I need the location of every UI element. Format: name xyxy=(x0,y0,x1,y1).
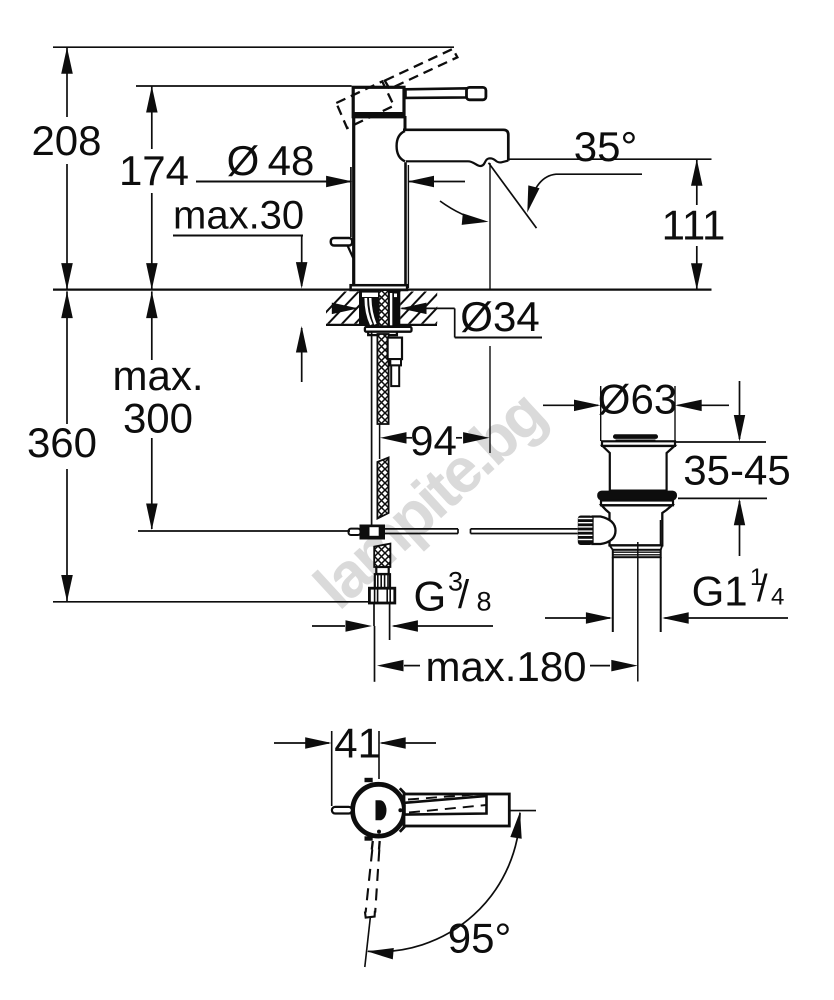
dimension 360 xyxy=(27,291,97,601)
svg-text:G: G xyxy=(414,573,447,620)
dimension G3/8 xyxy=(312,567,493,632)
mounting shank xyxy=(359,291,400,325)
spout xyxy=(403,130,508,166)
svg-text:8: 8 xyxy=(477,587,492,617)
svg-text:/: / xyxy=(757,568,768,610)
drain rubber seal xyxy=(597,491,677,501)
dashed handle lever open position xyxy=(336,49,457,128)
drain flange xyxy=(602,441,675,446)
top view centerline xyxy=(509,810,536,812)
svg-text:95°: 95° xyxy=(448,915,512,962)
dimension G1 1/4 xyxy=(545,564,788,624)
drain tailpipe xyxy=(613,557,661,632)
dimension 111 xyxy=(662,159,726,290)
drain stopper cap xyxy=(613,434,658,440)
watermark lampite.bg xyxy=(301,379,557,622)
drain body thread band xyxy=(613,550,661,557)
dimension 208 xyxy=(31,47,101,290)
faucet base ring xyxy=(351,285,408,290)
countertop hatching xyxy=(312,289,469,327)
svg-text:max.: max. xyxy=(112,352,203,399)
drain valve body xyxy=(602,505,673,545)
drain knurled knob xyxy=(578,516,593,546)
top view left pin xyxy=(332,807,352,814)
rod guide bracket 2 xyxy=(390,359,401,365)
hose ferrule xyxy=(376,567,388,574)
svg-text:max.180: max.180 xyxy=(425,643,586,690)
rod guide bracket 1 xyxy=(388,338,402,360)
pop-up rod vertical xyxy=(371,332,373,525)
hose break lines xyxy=(379,424,381,459)
dimension Ø48 xyxy=(196,137,465,288)
dimension 360 bottom extension line xyxy=(53,601,369,603)
svg-text:G1: G1 xyxy=(692,568,748,615)
hose tail threads xyxy=(374,603,390,640)
horizontal pop-up rod right segment xyxy=(471,529,578,534)
svg-text:111: 111 xyxy=(662,202,726,249)
faucet handle block xyxy=(352,87,405,118)
horizontal pop-up rod left segment xyxy=(385,529,458,534)
top view dashed lever lines xyxy=(408,794,487,813)
countertop bottom line xyxy=(326,324,437,326)
rod clamp joint xyxy=(349,525,386,540)
svg-text:35°: 35° xyxy=(574,123,638,170)
flexible hose middle segment xyxy=(377,458,388,519)
flexible hose upper segment xyxy=(377,334,388,424)
top view lever pivot ticks xyxy=(372,841,380,850)
svg-text:94: 94 xyxy=(410,417,457,464)
svg-text:4: 4 xyxy=(771,584,784,611)
svg-text:Ø 48: Ø 48 xyxy=(227,137,315,184)
dimension 41 xyxy=(274,720,436,807)
top view lever axis line xyxy=(365,918,371,967)
countertop level line xyxy=(53,289,712,291)
drain knob dome xyxy=(593,517,616,545)
faucet body xyxy=(354,116,406,286)
svg-text:208: 208 xyxy=(31,117,101,164)
top view lever outline rectangle xyxy=(404,794,509,826)
svg-text:max.30: max.30 xyxy=(173,194,304,238)
dimension 174 extension line xyxy=(136,85,352,87)
svg-text:Ø34: Ø34 xyxy=(460,293,539,340)
svg-text:Ø63: Ø63 xyxy=(598,376,677,423)
dimension max.180 xyxy=(375,626,638,690)
dimension 95 degrees arc xyxy=(367,812,522,962)
dimension max.300 extension line xyxy=(138,530,350,532)
dimension max.300 xyxy=(112,291,203,530)
top view faucet body circle xyxy=(353,784,405,836)
svg-text:35-45: 35-45 xyxy=(683,447,790,494)
rod guide bracket 3 xyxy=(391,365,399,386)
svg-text:174: 174 xyxy=(119,147,189,194)
top view solid lever xyxy=(405,796,487,815)
drain centerline xyxy=(637,542,639,682)
dimension Ø63 xyxy=(543,376,729,442)
drain shoulder lines xyxy=(610,545,663,550)
handle lever xyxy=(406,87,486,99)
dimension 35-45 xyxy=(676,381,791,556)
dimension 35 degrees xyxy=(440,123,712,453)
hose ribbed section xyxy=(375,574,390,588)
top view screw dot right xyxy=(398,808,402,812)
dimension Ø34 xyxy=(332,293,542,340)
pop-up rod hook xyxy=(331,167,353,258)
dimension max.30 xyxy=(173,194,307,383)
dimension 174 xyxy=(119,86,189,290)
top view dashed lever 95 position xyxy=(365,850,379,918)
top view cartridge D-shape xyxy=(376,800,387,820)
svg-text:300: 300 xyxy=(123,395,193,442)
dimension 208 top extension line xyxy=(53,46,454,48)
drain collar xyxy=(601,501,673,506)
hose connection nut G3/8 xyxy=(369,588,394,603)
top view base plate tabs xyxy=(365,778,405,841)
hose lower segment xyxy=(374,544,390,567)
top view screw dot bottom xyxy=(377,830,381,834)
svg-text:/: / xyxy=(458,573,470,617)
mounting washer xyxy=(365,327,412,335)
dimension 94 xyxy=(380,417,490,464)
svg-text:360: 360 xyxy=(27,419,97,466)
svg-text:41: 41 xyxy=(334,720,381,767)
drain neck xyxy=(603,446,675,491)
